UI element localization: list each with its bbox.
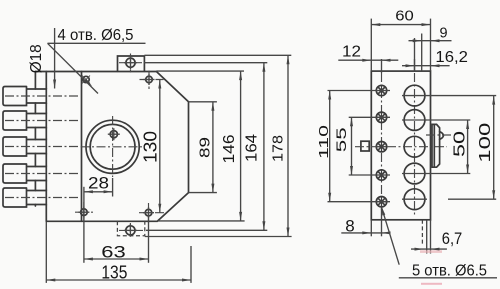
dimension 89 [198, 102, 215, 193]
latch tab on right edge [426, 124, 452, 167]
extension lines right side [144, 54, 291, 56]
bolt hole C3 [404, 136, 425, 157]
dimension 135 [46, 222, 191, 283]
dimension 146 [221, 71, 242, 221]
dimension 110 [316, 91, 373, 202]
bolt hole C1 [402, 85, 427, 106]
svg-text:9: 9 [440, 25, 448, 41]
screw hole S3 [376, 142, 386, 152]
bolt B3 [3, 137, 78, 156]
bolt B1 [3, 87, 78, 106]
body left edge segments (faceplate left edge x=35.4) [34, 72, 36, 207]
svg-text:8: 8 [345, 217, 354, 236]
row3 centerline through square and holes [355, 146, 447, 148]
svg-text:110: 110 [316, 125, 331, 159]
label D18 with leader [28, 28, 56, 89]
faceplate right edge / body left edge segments x=46.3 [45, 72, 47, 222]
internal wall line [81, 72, 83, 222]
pink scan marks [420, 250, 442, 253]
svg-text:60: 60 [395, 9, 414, 25]
dimension 63 [84, 217, 149, 263]
svg-text:Ø18: Ø18 [28, 44, 45, 73]
bolt hole C2 [402, 110, 427, 131]
screw hole S2 [373, 112, 390, 122]
bolt hole column centerline [414, 73, 416, 215]
lock body outline [35, 72, 188, 222]
screw hole S4 [373, 170, 390, 180]
dimension 16,2 [402, 49, 468, 71]
dimension 12 [338, 44, 398, 62]
dimension 178 [271, 55, 290, 236]
dimension 28 [84, 175, 113, 263]
screw hole bottom-left [75, 202, 93, 222]
svg-text:146: 146 [221, 135, 238, 164]
dimension 60 [371, 9, 430, 72]
dimension 9 [409, 25, 452, 71]
RIGHT-VIEW [316, 9, 497, 285]
dimension 100 [427, 96, 496, 200]
LEFT-VIEW [3, 27, 292, 283]
svg-text:28: 28 [88, 175, 109, 193]
screw hole bottom-right [139, 203, 165, 223]
bolt hole C4 [402, 163, 427, 184]
svg-text:12: 12 [342, 44, 361, 61]
label 5 holes D6.5 with leader [381, 206, 497, 279]
screw hole column centerline [381, 59, 383, 73]
svg-text:50: 50 [452, 131, 469, 157]
svg-text:4 отв. Ø6,5: 4 отв. Ø6,5 [58, 27, 134, 44]
screw hole top-left (leader target) [82, 76, 90, 84]
svg-text:5 отв. Ø6.5: 5 отв. Ø6.5 [412, 262, 487, 279]
svg-text:16,2: 16,2 [435, 49, 468, 66]
dimension 55 [333, 117, 373, 175]
svg-text:100: 100 [477, 123, 494, 163]
dimension 130 [141, 80, 162, 213]
bolt B5 [3, 188, 78, 207]
dimension 6,7 [411, 220, 462, 254]
bottom mounting ear (hidden, dashed) [117, 221, 144, 237]
dimension 164 [244, 63, 266, 231]
bolt hole C5 [402, 189, 427, 210]
dimension 50 [427, 120, 471, 174]
screw hole S1 [373, 85, 390, 95]
dimension 8 [341, 217, 390, 237]
svg-text:178: 178 [271, 135, 287, 162]
small hole on cylinder [108, 128, 120, 140]
faceplate outline [371, 71, 430, 220]
screw hole S5 [373, 197, 390, 207]
bolt B4 [3, 164, 78, 183]
cylinder circle (double) [81, 116, 143, 177]
svg-text:164: 164 [244, 134, 261, 162]
screw hole top-right [140, 71, 164, 90]
label 4 holes D6.5 [48, 27, 146, 94]
svg-text:55: 55 [333, 127, 349, 152]
svg-text:130: 130 [141, 131, 161, 163]
svg-text:63: 63 [101, 242, 126, 261]
top mounting ear [118, 54, 145, 73]
svg-text:89: 89 [198, 137, 214, 158]
bolt B2 [3, 111, 78, 130]
square spindle hole [361, 141, 369, 151]
svg-text:135: 135 [101, 261, 127, 282]
svg-text:6,7: 6,7 [442, 230, 463, 248]
